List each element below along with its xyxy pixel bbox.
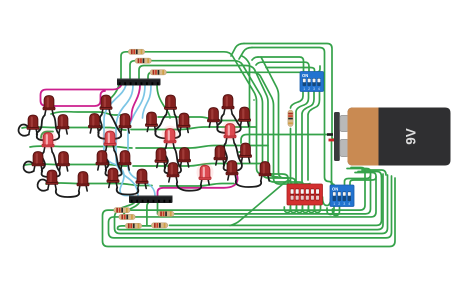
svg-text:2: 2 — [338, 202, 340, 206]
svg-text:ON: ON — [302, 73, 308, 78]
svg-text:3: 3 — [343, 202, 345, 206]
svg-text:1: 1 — [333, 202, 335, 206]
svg-text:3: 3 — [313, 87, 315, 91]
svg-text:4: 4 — [348, 202, 350, 206]
svg-text:2: 2 — [308, 87, 310, 91]
svg-text:4: 4 — [318, 87, 320, 91]
svg-text:ON: ON — [332, 187, 338, 192]
svg-text:9V: 9V — [404, 128, 419, 145]
svg-text:1: 1 — [303, 87, 305, 91]
